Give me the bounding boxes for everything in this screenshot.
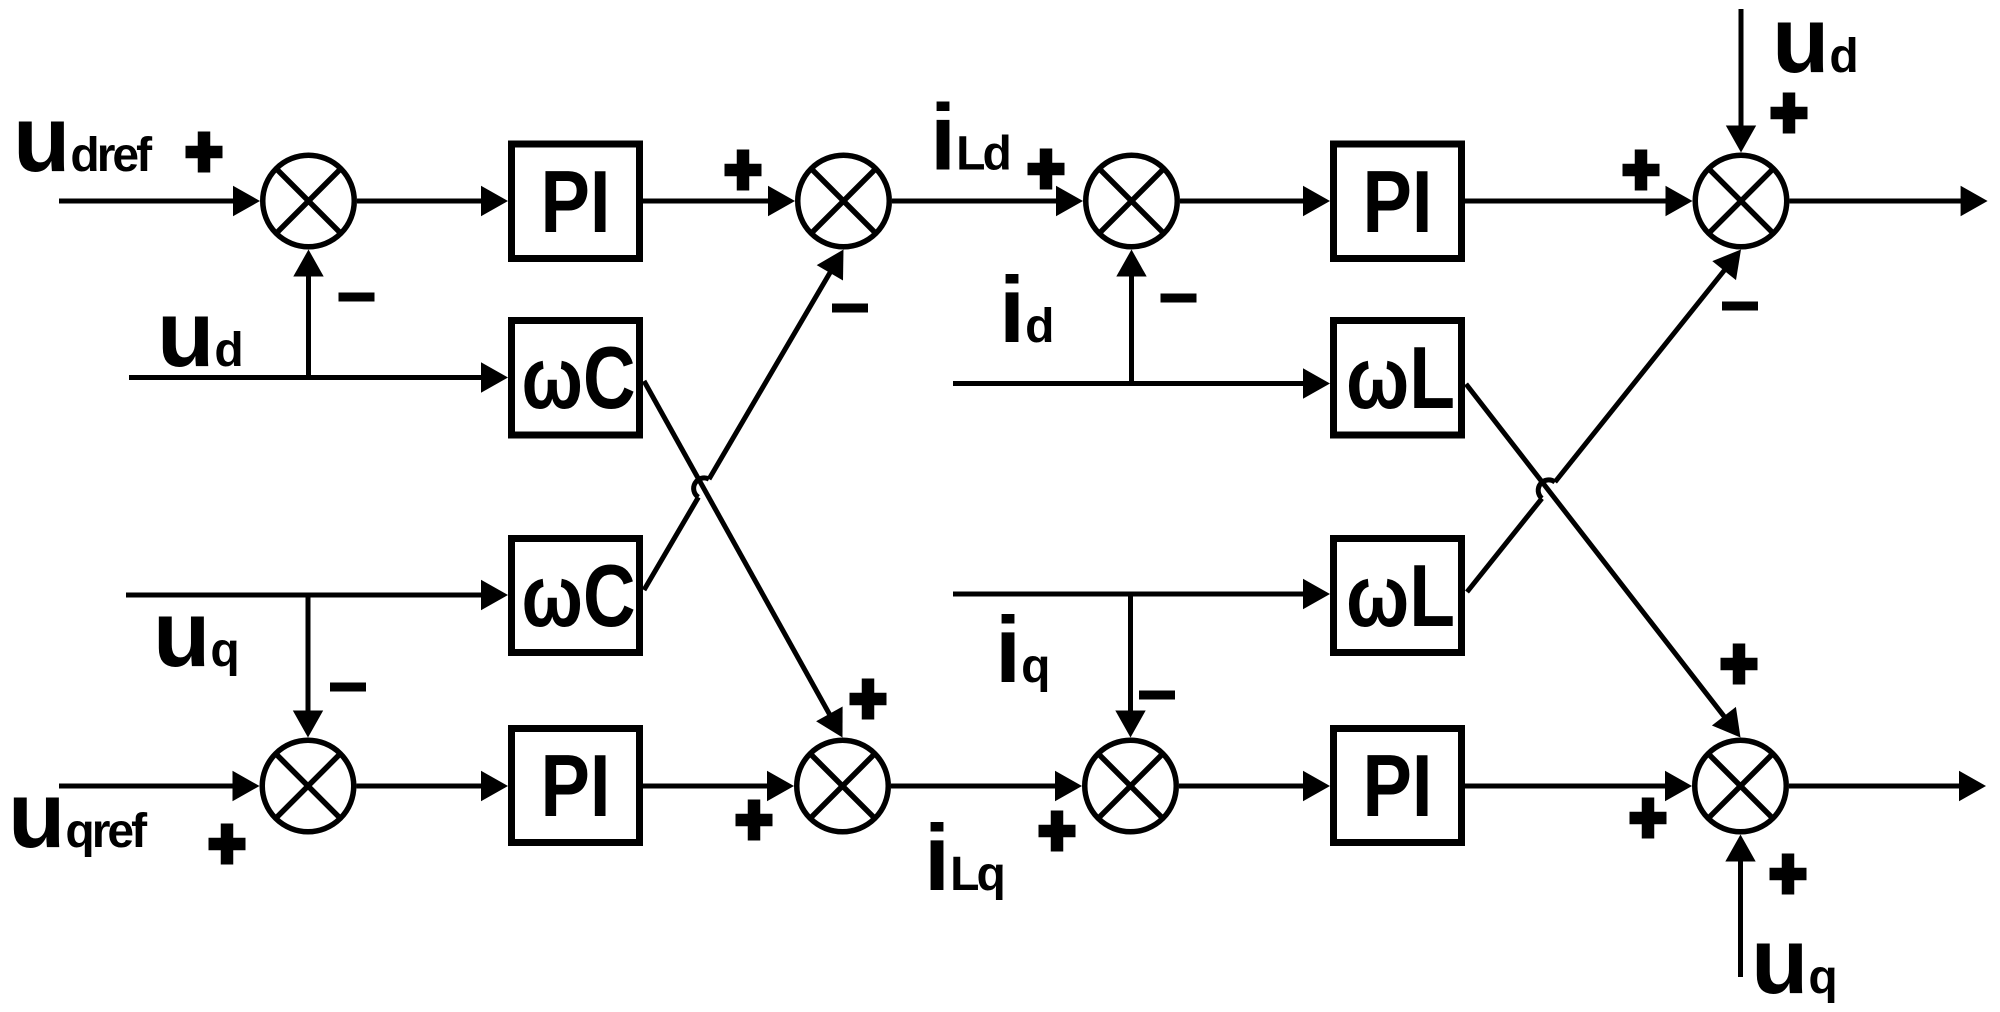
- wire i_q branch down to S7: [1115, 594, 1145, 738]
- wire diagonal B7 (ωL) to S4 with crossover jump: [1467, 250, 1741, 593]
- plus sign at S6 diagonal input: [850, 679, 887, 720]
- wire u_q bottom input to S8: [1725, 835, 1755, 978]
- plus sign at S6 input from PI: [736, 800, 773, 841]
- plus sign at S4 u_d input: [1771, 93, 1808, 134]
- summing junction S5: [262, 740, 354, 832]
- wire i_q feed to B7: [953, 579, 1330, 609]
- wire S2 to S3 (i_Ld): [892, 186, 1083, 216]
- plus sign at S3 input (i_Ld): [1028, 149, 1065, 190]
- svg-text:iLd: iLd: [930, 85, 1009, 190]
- block B3 (ωC): [512, 539, 640, 653]
- wire diagonal B2 (ωC) to S6: [644, 381, 843, 738]
- block B1 (PI): [512, 144, 640, 259]
- label u_q (row3): [153, 581, 237, 686]
- svg-text:iLq: iLq: [924, 805, 1003, 910]
- wire S7 to PI B8: [1179, 771, 1330, 801]
- svg-text:ωC: ωC: [522, 328, 636, 427]
- block B6 (ωL): [1334, 321, 1462, 436]
- label i_Lq: [924, 805, 1003, 910]
- block B4 (PI): [512, 729, 640, 843]
- wire i_d feed to B6: [953, 368, 1330, 398]
- plus sign at S1 input: [186, 132, 223, 173]
- wire B4 to S6: [643, 771, 794, 801]
- summing junction S8: [1695, 740, 1787, 832]
- wire S5 to PI B4: [357, 771, 509, 801]
- label u_d (top right): [1772, 0, 1856, 92]
- wire u_qref input to S5: [59, 771, 260, 801]
- wire u_q branch down to S5: [293, 595, 323, 738]
- svg-text:uq: uq: [1751, 908, 1835, 1012]
- plus sign at S5 input: [209, 824, 246, 865]
- label u_dref: [13, 86, 153, 191]
- wire u_dref input to S1: [59, 186, 260, 216]
- plus sign at S8 diagonal input: [1721, 644, 1758, 685]
- summing junction S6: [797, 740, 889, 832]
- label u_qref: [8, 762, 148, 867]
- plus sign at S2 input from PI: [725, 150, 762, 191]
- svg-text:PI: PI: [541, 152, 611, 251]
- svg-text:id: id: [999, 257, 1052, 362]
- wire S4 output: [1790, 186, 1988, 216]
- wire u_d branch up to S1: [293, 250, 323, 378]
- svg-text:udref: udref: [13, 86, 153, 191]
- minus sign at S4 diagonal input: [1722, 302, 1758, 311]
- wire S3 to PI B5: [1180, 186, 1330, 216]
- label u_q (bottom right): [1751, 908, 1835, 1012]
- label i_Ld: [930, 85, 1009, 190]
- summing junction S1: [263, 155, 355, 247]
- wire i_d branch up to S3: [1116, 250, 1146, 384]
- block B8 (PI): [1334, 729, 1462, 843]
- svg-text:iq: iq: [995, 597, 1048, 702]
- plus sign at S8 input from PI: [1630, 798, 1667, 839]
- wire B8 to S8: [1465, 771, 1692, 801]
- plus sign at S7 input (i_Lq): [1039, 811, 1076, 852]
- summing junction S2: [798, 155, 890, 247]
- svg-text:ωL: ωL: [1346, 546, 1455, 645]
- label i_d: [999, 257, 1052, 362]
- wire B5 to S4: [1465, 186, 1693, 216]
- minus sign at S7 i_q input: [1139, 691, 1175, 700]
- block B7 (ωL): [1334, 539, 1462, 653]
- svg-text:ud: ud: [157, 281, 241, 386]
- label i_q (row3): [995, 597, 1048, 702]
- minus sign at S2 diagonal input: [832, 304, 868, 313]
- block B2 (ωC): [512, 321, 640, 436]
- wire u_d top input to S4: [1726, 9, 1756, 153]
- svg-text:PI: PI: [1363, 152, 1433, 251]
- wire u_q feed to B3: [126, 580, 508, 610]
- minus sign at S1 u_d input: [339, 293, 375, 302]
- block B5 (PI): [1334, 144, 1462, 259]
- minus sign at S5 u_q input: [330, 683, 366, 692]
- summing junction S7: [1085, 740, 1177, 832]
- wire u_d feed to B2: [129, 362, 508, 392]
- wire diagonal B6 (ωL) to S8: [1466, 384, 1741, 738]
- summing junction S3: [1086, 155, 1178, 247]
- svg-text:PI: PI: [541, 736, 611, 835]
- svg-text:ωC: ωC: [522, 546, 636, 645]
- summing junction S4: [1695, 155, 1787, 247]
- wire B1 to S2: [643, 186, 795, 216]
- minus sign at S3 i_d input: [1161, 294, 1197, 303]
- label u_d (row2): [157, 281, 241, 386]
- wire S6 to S7 (i_Lq): [891, 771, 1082, 801]
- svg-text:ωL: ωL: [1346, 328, 1455, 427]
- svg-text:PI: PI: [1363, 736, 1433, 835]
- svg-text:ud: ud: [1772, 0, 1856, 92]
- plus sign at S4 input from PI: [1623, 150, 1660, 191]
- svg-text:uqref: uqref: [8, 762, 148, 867]
- plus sign at S8 u_q input: [1770, 854, 1807, 895]
- wire S8 output: [1789, 771, 1986, 801]
- wire S1 to PI B1: [357, 186, 508, 216]
- wire diagonal B3 (ωC) to S2 with crossover jump: [644, 250, 844, 591]
